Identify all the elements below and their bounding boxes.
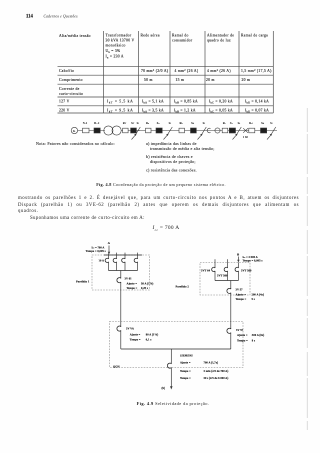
svg-text:In = 230 A: In = 230 A — [106, 55, 124, 60]
svg-text:3 min (2/3 de 700 A): 3 min (2/3 de 700 A) — [204, 370, 229, 373]
svg-text:Ajuste =: Ajuste = — [237, 334, 248, 337]
svg-text:0,25 s: 0,25 s — [141, 287, 149, 290]
svg-text:Parelhão 1: Parelhão 1 — [76, 280, 90, 283]
svg-text:Ajuste =: Ajuste = — [130, 333, 141, 336]
svg-text:IkC = 0,20 kA: IkC = 0,20 kA — [209, 100, 233, 105]
svg-text:IkD = 0,14 kA: IkD = 0,14 kA — [245, 100, 269, 105]
svg-text:Xd: Xd — [261, 122, 265, 125]
svg-text:Alimentador do: Alimentador do — [207, 34, 234, 38]
svg-text:IkT = 5,5 kA: IkT = 5,5 kA — [107, 100, 133, 105]
svg-text:Cadernos e Questões: Cadernos e Questões — [44, 15, 79, 19]
svg-text:Tempo =: Tempo = — [127, 287, 138, 290]
svg-text:XT: XT — [131, 122, 135, 125]
svg-text:Nota: Fatores não considerados: Nota: Fatores não considerados no cálcul… — [36, 141, 115, 146]
svg-text:Ajuste =: Ajuste = — [236, 293, 247, 296]
svg-text:S4: S4 — [238, 122, 241, 125]
svg-text:127 V: 127 V — [59, 100, 70, 104]
svg-text:quadro de luz: quadro de luz — [207, 39, 231, 43]
svg-text:50 m: 50 m — [144, 78, 153, 82]
svg-text:30 kVA 13700 V: 30 kVA 13700 V — [106, 39, 135, 43]
svg-text:Tempo =: Tempo = — [236, 298, 247, 301]
svg-text:3V 61: 3V 61 — [125, 278, 133, 281]
svg-text:200 A (4x): 200 A (4x) — [252, 293, 264, 296]
svg-text:Cabo/fio: Cabo/fio — [59, 69, 74, 73]
svg-text:3VT 500: 3VT 500 — [217, 274, 228, 277]
svg-text:114: 114 — [26, 15, 34, 20]
svg-text:Ramal de carga: Ramal de carga — [241, 34, 268, 38]
svg-text:4 mm2 (26 A): 4 mm2 (26 A) — [207, 69, 231, 73]
svg-text:Corrente de: Corrente de — [59, 87, 80, 91]
svg-text:curto-circuito: curto-circuito — [59, 92, 83, 96]
svg-text:transmissão de média e alta te: transmissão de média e alta tensão; — [150, 146, 215, 151]
svg-text:Tempo =: Tempo = — [237, 339, 248, 342]
svg-text:3V VA: 3V VA — [126, 328, 134, 331]
svg-text:consumidor: consumidor — [172, 39, 193, 43]
svg-text:Ajuste =: Ajuste = — [180, 362, 191, 365]
svg-text:IkB = 1,2 kA: IkB = 1,2 kA — [174, 108, 196, 113]
svg-text:B: B — [237, 252, 240, 256]
svg-text:Ra: Ra — [146, 122, 149, 125]
svg-text:S5: S5 — [270, 122, 273, 125]
svg-text:Uk = 3%: Uk = 3% — [106, 49, 121, 54]
svg-text:220 V: 220 V — [59, 108, 70, 112]
svg-text:Tempo =: Tempo = — [180, 377, 191, 380]
svg-text:dispositivos de proteção;: dispositivos de proteção; — [150, 159, 196, 164]
svg-text:300 A (6x): 300 A (6x) — [252, 334, 264, 337]
svg-text:70 mm2 (2/0 A): 70 mm2 (2/0 A) — [141, 69, 169, 73]
svg-text:QGN: QGN — [113, 365, 120, 368]
svg-text:IkT = 9,5 kA: IkT = 9,5 kA — [107, 108, 133, 113]
svg-text:IkB = 0,85 kA: IkB = 0,85 kA — [174, 100, 198, 105]
svg-text:IkD = 0,07 kA: IkD = 0,07 kA — [245, 108, 269, 113]
svg-text:G: G — [73, 129, 76, 133]
svg-text:Xc: Xc — [230, 122, 233, 125]
svg-text:IkA = 3,5 kA: IkA = 3,5 kA — [142, 108, 164, 113]
svg-text:Tempo = 0,005 s: Tempo = 0,005 s — [243, 260, 264, 263]
svg-text:S1: S1 — [137, 122, 140, 125]
svg-text:SIEMENS: SIEMENS — [180, 354, 193, 357]
svg-text:A: A — [108, 241, 111, 245]
svg-text:c) resistência das conexões.: c) resistência das conexões. — [146, 168, 197, 173]
svg-text:Transformador: Transformador — [106, 34, 132, 38]
svg-text:700 A (1,7x): 700 A (1,7x) — [204, 362, 219, 365]
svg-text:S3: S3 — [203, 122, 206, 125]
svg-text:N-2: N-2 — [83, 122, 88, 125]
svg-text:Comprimento: Comprimento — [59, 78, 83, 82]
svg-text:15 m: 15 m — [176, 78, 185, 82]
svg-text:3VT 64: 3VT 64 — [201, 269, 211, 272]
svg-text:Rd: Rd — [249, 122, 253, 125]
svg-text:0,1 s: 0,1 s — [146, 339, 152, 342]
svg-text:Rede aérea: Rede aérea — [141, 34, 160, 38]
svg-text:RT: RT — [123, 122, 127, 125]
svg-text:3V 57: 3V 57 — [236, 329, 244, 332]
svg-text:Rb: Rb — [180, 122, 184, 125]
svg-text:Ajuste =: Ajuste = — [127, 283, 138, 286]
svg-text:Tempo = 0,005 s: Tempo = 0,005 s — [86, 250, 107, 253]
svg-text:3VT 500: 3VT 500 — [241, 269, 252, 272]
svg-text:4 mm2 (26 A): 4 mm2 (26 A) — [175, 69, 199, 73]
svg-text:20 m: 20 m — [242, 78, 251, 82]
svg-text:80 A (1%): 80 A (1%) — [146, 333, 158, 336]
svg-text:IkA = 5,1 kA: IkA = 5,1 kA — [142, 100, 164, 105]
svg-text:10 A: 10 A — [99, 259, 105, 262]
svg-text:Tempo =: Tempo = — [180, 370, 191, 373]
svg-text:Rc: Rc — [223, 122, 226, 125]
svg-text:monofásico: monofásico — [106, 44, 126, 48]
svg-text:1,5 mm2 (17,5 A): 1,5 mm2 (17,5 A) — [241, 69, 272, 74]
svg-text:S2: S2 — [169, 122, 172, 125]
svg-text:20 m: 20 m — [206, 78, 215, 82]
svg-text:Ramal do: Ramal do — [172, 34, 189, 38]
svg-text:3V 57: 3V 57 — [236, 289, 244, 292]
svg-text:IkC = 0,05 kA: IkC = 0,05 kA — [209, 108, 233, 113]
svg-text:(b): (b) — [162, 387, 166, 390]
svg-text:1 S0: 1 S0 — [243, 136, 249, 139]
svg-text:30 s (2/3 de 6 000 A): 30 s (2/3 de 6 000 A) — [204, 377, 229, 380]
svg-text:Xb: Xb — [191, 122, 195, 125]
svg-text:IL-2: IL-2 — [94, 122, 100, 125]
svg-text:Alta/média tensão: Alta/média tensão — [59, 34, 91, 38]
svg-text:50 A (1%): 50 A (1%) — [141, 283, 153, 286]
svg-text:Parelhão 2: Parelhão 2 — [176, 286, 190, 289]
svg-text:Xa: Xa — [157, 122, 160, 125]
svg-text:8 s: 8 s — [252, 339, 256, 342]
svg-text:Tempo =: Tempo = — [130, 339, 141, 342]
svg-text:5 s: 5 s — [252, 298, 256, 301]
